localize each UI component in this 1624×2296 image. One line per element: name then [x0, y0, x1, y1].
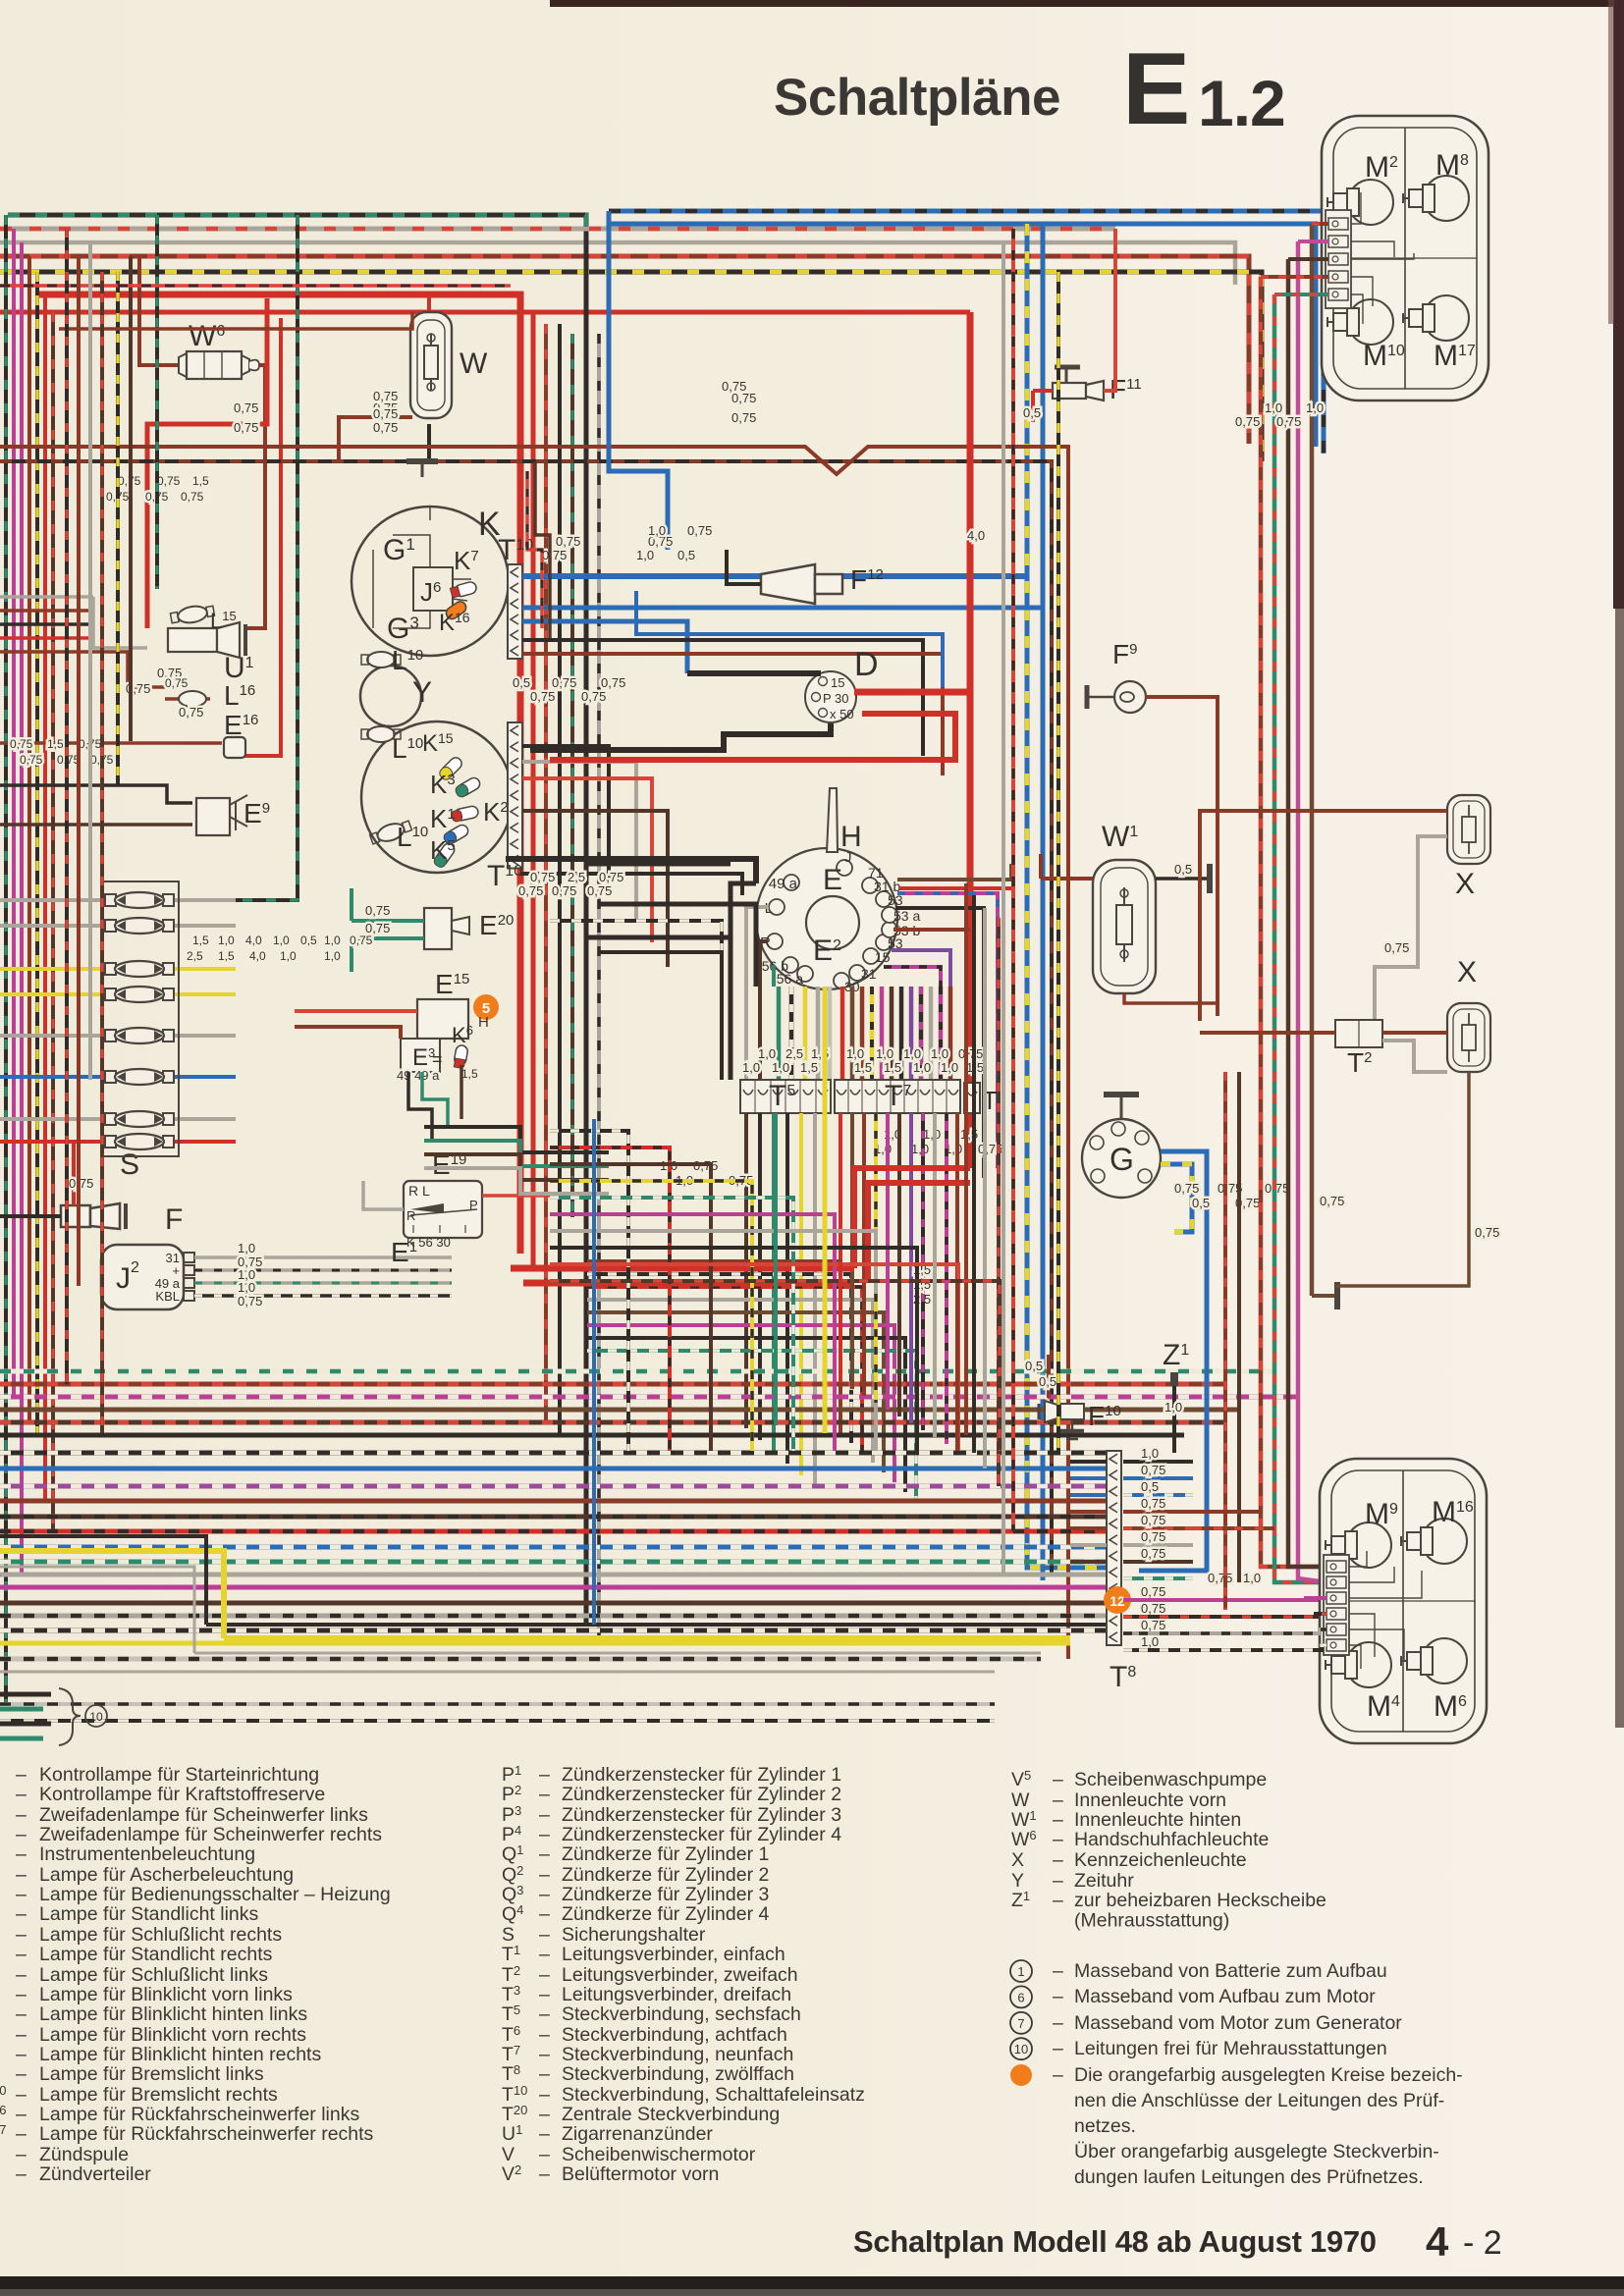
svg-text:–: –	[16, 2024, 27, 2046]
wire F10 up	[1025, 1355, 1056, 1398]
svg-text:Lampe für Blinklicht vorn rech: Lampe für Blinklicht vorn rechts	[39, 2024, 306, 2046]
connector T8	[1107, 1451, 1136, 1693]
svg-text:–: –	[539, 1843, 550, 1865]
svg-text:–: –	[539, 2084, 550, 2106]
svg-text:0,75: 0,75	[581, 689, 606, 704]
svg-text:Lampe für Ascherbeleuchtung: Lampe für Ascherbeleuchtung	[39, 1864, 294, 1886]
ground tail brown	[1312, 1282, 1337, 1309]
wires into taillamp	[1139, 1571, 1326, 1650]
wire tail bundle brown	[1310, 224, 1315, 1296]
svg-text:1,0: 1,0	[742, 1060, 760, 1075]
wire black nest E 5	[599, 952, 722, 1080]
legend circled ground straps	[1010, 1960, 1402, 2059]
wire red heater 2	[523, 1280, 854, 1287]
wire switch fan	[779, 987, 950, 1080]
svg-text:4,0: 4,0	[245, 934, 262, 947]
wire spine dark 1	[544, 324, 548, 1422]
svg-text:1,0: 1,0	[218, 934, 235, 947]
svg-text:31: 31	[861, 966, 877, 982]
svg-text:–: –	[539, 1764, 550, 1786]
svg-text:D: D	[854, 646, 879, 683]
connector taillamp pins	[1324, 1555, 1349, 1655]
svg-text:–: –	[16, 1784, 27, 1805]
svg-text:–: –	[539, 2163, 550, 2185]
turnsignal labels	[760, 849, 920, 994]
label E2	[813, 934, 841, 967]
wire top bus extra red	[0, 284, 511, 288]
svg-text:–: –	[1053, 1809, 1063, 1831]
switch F9	[1112, 639, 1146, 713]
turnsignal pins	[767, 860, 897, 988]
svg-text:–: –	[1053, 1769, 1063, 1790]
fuse box S outline	[102, 881, 179, 1156]
svg-text:1,0: 1,0	[1141, 1446, 1159, 1461]
switch E15	[417, 969, 469, 1039]
wire tail bundle red	[1288, 259, 1326, 1567]
labels below T7	[874, 1127, 1002, 1156]
svg-text:Zigarrenanzünder: Zigarrenanzünder	[562, 2123, 713, 2145]
wire horn	[727, 550, 761, 584]
wire T2 left	[1200, 1031, 1335, 1035]
wire top bus maroon-red	[0, 256, 1249, 444]
svg-text:0,5: 0,5	[1192, 1196, 1210, 1210]
wire T8 right pins	[1123, 1446, 1326, 1650]
svg-text:Innenleuchte vorn: Innenleuchte vorn	[1074, 1789, 1226, 1811]
lamp cluster top right box	[1322, 116, 1489, 400]
title E1.2	[1122, 32, 1285, 146]
svg-text:0,75: 0,75	[373, 389, 398, 403]
svg-text:Lampe für Bedienungsschalter –: Lampe für Bedienungsschalter – Heizung	[39, 1884, 391, 1905]
wire T8 left stubs	[1070, 1462, 1107, 1562]
svg-text:7: 7	[1017, 2016, 1024, 2031]
svg-text:–: –	[16, 2003, 27, 2025]
wire W top	[427, 294, 431, 312]
wire tail bundle magenta	[1298, 241, 1326, 1582]
wire low white blk	[0, 1702, 995, 1706]
svg-text:Kontrollampe für Kraftstoffres: Kontrollampe für Kraftstoffreserve	[39, 1784, 325, 1805]
svg-text:–: –	[16, 1944, 27, 1965]
svg-text:0,5: 0,5	[1039, 1374, 1056, 1389]
svg-text:0,75: 0,75	[687, 523, 712, 538]
svg-text:Zündkerzenstecker für Zylinder: Zündkerzenstecker für Zylinder 4	[562, 1824, 841, 1845]
fuse row y987	[0, 961, 236, 977]
svg-text:–: –	[16, 1984, 27, 2005]
svg-text:71: 71	[868, 865, 884, 881]
wire red drop 2	[226, 318, 281, 756]
label Y	[412, 676, 432, 709]
fuse row y1140	[0, 1111, 236, 1127]
lamp E16	[224, 710, 258, 758]
svg-text:0,75: 0,75	[179, 705, 203, 720]
svg-text:Leitungen frei für Mehrausstat: Leitungen frei für Mehrausstattungen	[1074, 2038, 1387, 2059]
svg-text:1,0: 1,0	[238, 1280, 255, 1295]
svg-text:–: –	[539, 2024, 550, 2046]
svg-text:Steckverbindung, neunfach: Steckverbindung, neunfach	[562, 2044, 793, 2065]
wire spine dark 2	[558, 324, 562, 1435]
svg-text:0,75: 0,75	[234, 420, 258, 435]
label E	[823, 864, 842, 896]
svg-text:0,5: 0,5	[300, 934, 317, 947]
connector headlamp pins	[1326, 210, 1351, 308]
label E1	[391, 1237, 417, 1267]
labels W wires	[373, 400, 398, 435]
svg-text:Instrumentenbeleuchtung: Instrumentenbeleuchtung	[39, 1843, 255, 1865]
svg-text:Zündkerze für Zylinder 2: Zündkerze für Zylinder 2	[562, 1864, 769, 1886]
svg-text:0,5: 0,5	[677, 548, 695, 562]
svg-text:Zentrale Steckverbindung: Zentrale Steckverbindung	[562, 2104, 780, 2125]
wire red heater 1	[511, 1265, 854, 1272]
wire top bus red thick	[36, 294, 520, 1254]
svg-text:15: 15	[875, 949, 891, 965]
svg-text:–: –	[539, 1964, 550, 1986]
footer page number	[1426, 2218, 1502, 2265]
wire W1 left	[1041, 854, 1093, 879]
svg-text:–: –	[16, 1964, 27, 1986]
wire left edge vertical	[12, 229, 16, 1397]
svg-text:- 2: - 2	[1463, 2224, 1502, 2262]
svg-text:6: 6	[1017, 1990, 1024, 2004]
svg-text:10: 10	[1014, 2042, 1028, 2056]
interior light W1	[1093, 821, 1156, 993]
wire black pair 2	[0, 461, 1052, 1575]
footer text	[853, 2224, 1377, 2259]
wire L16	[126, 681, 210, 707]
svg-text:10: 10	[89, 1710, 103, 1724]
svg-text:0,75: 0,75	[20, 753, 43, 767]
wire vert teal 160	[155, 215, 159, 589]
svg-text:0,5: 0,5	[1023, 405, 1041, 420]
wire F9 left bar	[1087, 685, 1114, 709]
lamp K3 green	[454, 775, 482, 798]
label K15	[422, 730, 454, 757]
legend orange note	[1010, 2064, 1463, 2188]
svg-text:1,5: 1,5	[854, 1060, 872, 1075]
svg-text:1,0: 1,0	[636, 548, 654, 562]
svg-text:netzes.: netzes.	[1074, 2115, 1136, 2137]
svg-text:–: –	[16, 1903, 27, 1925]
wire black nest E 2	[599, 904, 756, 987]
svg-text:Zündkerzenstecker für Zylinder: Zündkerzenstecker für Zylinder 1	[562, 1764, 841, 1786]
wire T10 red2	[522, 778, 652, 942]
connector T1	[964, 1083, 998, 1115]
wire black mid2	[520, 874, 742, 895]
wire low gray 1703	[0, 1671, 995, 1674]
svg-text:P 30: P 30	[823, 691, 849, 706]
svg-text:Zeituhr: Zeituhr	[1074, 1870, 1134, 1892]
svg-text:–: –	[16, 1864, 27, 1886]
svg-text:0,75: 0,75	[373, 420, 398, 435]
svg-text:0,75: 0,75	[1320, 1194, 1344, 1208]
svg-text:0,75: 0,75	[1141, 1496, 1165, 1511]
cluster internal wires	[373, 507, 471, 628]
connector T7	[835, 1080, 960, 1113]
label T10 lower	[487, 860, 522, 892]
row labels above E15	[187, 934, 373, 963]
svg-text:1,5: 1,5	[47, 737, 64, 751]
wire blue bus 1	[609, 211, 1324, 454]
svg-text:–: –	[539, 2063, 550, 2085]
svg-text:0,75: 0,75	[1141, 1601, 1165, 1616]
wire T5 tails	[746, 1113, 815, 1487]
wire left edge vertical	[43, 294, 47, 1501]
wire vert dk 984	[964, 883, 968, 1435]
svg-text:Lampe für Bremslicht rechts: Lampe für Bremslicht rechts	[39, 2084, 278, 2106]
svg-text:Handschuhfachleuchte: Handschuhfachleuchte	[1074, 1829, 1269, 1850]
svg-text:Zündkerzenstecker für Zylinder: Zündkerzenstecker für Zylinder 2	[562, 1784, 841, 1805]
svg-text:1,0: 1,0	[876, 1046, 893, 1061]
svg-text:0,75: 0,75	[518, 883, 543, 898]
svg-text:Kontrollampe für Starteinricht: Kontrollampe für Starteinrichtung	[39, 1764, 319, 1786]
wire vert blkyel 1078	[1056, 272, 1060, 1453]
wire vert dkred 1017	[997, 918, 1001, 1486]
wire blue bus 2	[609, 224, 1316, 447]
label K3	[430, 770, 456, 799]
fuse row y943	[0, 918, 236, 934]
wire switch left bundle	[731, 883, 774, 1080]
wire red into switch	[899, 886, 1011, 890]
svg-text:Lampe für Bremslicht links: Lampe für Bremslicht links	[39, 2063, 264, 2085]
svg-text:0,75: 0,75	[1141, 1546, 1165, 1561]
svg-text:0,75: 0,75	[731, 410, 756, 425]
svg-text:2,5: 2,5	[568, 870, 585, 884]
connector T2	[1335, 1020, 1382, 1078]
connector T10 lower	[508, 722, 522, 869]
wire T10 blue5	[636, 591, 943, 687]
wire vert red 1032	[1011, 229, 1015, 1531]
glovebox light W6	[179, 320, 259, 379]
svg-text:Sicherungshalter: Sicherungshalter	[562, 1924, 706, 1946]
svg-text:J: J	[844, 849, 852, 866]
wire vert dk 133	[129, 256, 133, 741]
fuse row y1055	[0, 1028, 236, 1043]
svg-text:1,0: 1,0	[1306, 400, 1324, 415]
wires E3 tails	[408, 1065, 461, 1139]
wire E15 in	[295, 1011, 417, 1039]
svg-text:Zündspule: Zündspule	[39, 2144, 129, 2165]
wire vert gray 1022	[1001, 242, 1005, 1575]
svg-text:–: –	[16, 1764, 27, 1786]
label L10 b	[392, 733, 423, 764]
svg-text:–: –	[16, 2104, 27, 2125]
svg-text:2,5: 2,5	[785, 1046, 803, 1061]
svg-text:0,75: 0,75	[1141, 1463, 1165, 1477]
lamp L10 b	[361, 726, 401, 742]
svg-text:zur beheizbaren Heckscheibe: zur beheizbaren Heckscheibe	[1074, 1890, 1326, 1911]
svg-text:Lampe für Rückfahrscheinwerfer: Lampe für Rückfahrscheinwerfer links	[39, 2104, 359, 2125]
wire X1 gray	[1375, 836, 1447, 1020]
wire maroon W6 right	[245, 365, 265, 628]
svg-text:Schaltpläne: Schaltpläne	[774, 69, 1060, 127]
wire G blue 2	[1161, 1164, 1192, 1232]
wire corner stub b	[1193, 1526, 1274, 1530]
fuse row y917	[0, 892, 236, 908]
lamp K5 green	[432, 841, 457, 869]
svg-text:1,0: 1,0	[324, 934, 341, 947]
label M10	[1363, 340, 1405, 372]
wire spine green	[570, 334, 574, 1217]
top page edge	[550, 0, 1624, 7]
svg-text:1,5: 1,5	[192, 474, 209, 488]
svg-text:​16: ​16	[0, 2103, 6, 2117]
wire blue vertical A	[1027, 224, 1115, 1568]
svg-text:–: –	[539, 1924, 550, 1946]
svg-text:H: H	[478, 1014, 489, 1031]
wire left edge vertical	[4, 215, 8, 1704]
svg-text:0,75: 0,75	[542, 548, 567, 562]
svg-text:1,0: 1,0	[772, 1060, 789, 1075]
switch E9	[196, 795, 270, 835]
label M6	[1434, 1690, 1467, 1723]
svg-text:–: –	[539, 1944, 550, 1965]
wire maroon drop W6	[139, 256, 180, 365]
svg-text:2,5: 2,5	[187, 949, 203, 963]
svg-text:–: –	[539, 2144, 550, 2165]
svg-text:W: W	[460, 347, 488, 380]
svg-text:Zündkerze für Zylinder 3: Zündkerze für Zylinder 3	[562, 1884, 769, 1905]
label E19	[432, 1149, 466, 1180]
wire blue weave	[592, 1119, 596, 1625]
label G1	[383, 534, 415, 566]
svg-text:Y: Y	[412, 676, 432, 709]
svg-text:Lampe für Rückfahrscheinwerfer: Lampe für Rückfahrscheinwerfer rechts	[39, 2123, 374, 2145]
lamp K16	[444, 599, 468, 620]
wire low last	[0, 1719, 995, 1723]
wire J2 pin wires	[194, 1241, 452, 1308]
svg-text:12: 12	[1110, 1593, 1125, 1609]
svg-text:1: 1	[1017, 1964, 1024, 1979]
svg-text:1,5: 1,5	[192, 934, 209, 947]
svg-text:0,75: 0,75	[165, 676, 189, 690]
wire T7 tails	[840, 1113, 957, 1369]
wire stairs red b	[535, 461, 550, 638]
label M16	[1432, 1496, 1474, 1528]
wire 4.0 label	[967, 528, 985, 543]
wire teal long	[774, 1113, 778, 1425]
heated window Z1	[1163, 1339, 1189, 1453]
wire black nest E 1	[586, 862, 731, 867]
wire left corner gray	[0, 1567, 194, 1653]
wire vert blkyel 120	[116, 272, 120, 785]
wire W bottom 2	[427, 424, 431, 461]
horn F12	[761, 564, 884, 604]
svg-text:Lampe für Schlußlicht links: Lampe für Schlußlicht links	[39, 1964, 268, 1986]
fuse row y1097	[0, 1069, 236, 1085]
turnsignal switch outline	[756, 788, 897, 989]
svg-text:4,0: 4,0	[249, 949, 266, 963]
svg-text:0,75: 0,75	[365, 903, 390, 918]
wire top bus gray-red	[0, 227, 1115, 232]
wire spine black long	[584, 236, 589, 1625]
wire weave corners	[550, 1131, 1000, 1451]
svg-text:0,75: 0,75	[552, 883, 576, 898]
svg-text:R L: R L	[408, 1183, 430, 1199]
svg-text:Steckverbindung, achtfach: Steckverbindung, achtfach	[562, 2024, 787, 2046]
svg-text:–: –	[1053, 1890, 1063, 1911]
svg-text:–: –	[539, 1884, 550, 1905]
svg-text:–: –	[16, 2084, 27, 2106]
svg-text:0,75: 0,75	[552, 675, 576, 690]
wire red drop 1	[147, 298, 267, 628]
wire G blue 1	[1139, 1151, 1207, 1571]
ground W	[406, 461, 438, 477]
wire left stub E16	[0, 741, 222, 745]
label H	[840, 821, 862, 853]
svg-text:–: –	[539, 1784, 550, 1805]
wire T10 blue2	[522, 606, 1043, 611]
wire E19 left	[363, 1181, 550, 1209]
wire top bus teal-black	[8, 215, 586, 236]
svg-text:​17: ​17	[0, 2122, 6, 2137]
svg-text:53 a: 53 a	[893, 908, 920, 924]
svg-text:1,0: 1,0	[931, 1046, 948, 1061]
wire red heater vert	[854, 1168, 970, 1283]
wire T2 right	[1382, 1033, 1447, 1072]
svg-text:–: –	[1053, 2064, 1063, 2086]
svg-text:x 50: x 50	[830, 707, 854, 721]
svg-text:Lampe für Standlicht links: Lampe für Standlicht links	[39, 1903, 259, 1925]
svg-text:G: G	[1110, 1142, 1134, 1177]
wire left corner yellow	[0, 1551, 224, 1638]
wire W bottom 1	[339, 417, 412, 461]
labels heater	[913, 1262, 931, 1307]
wire bottom fan	[0, 1371, 1296, 1659]
label K7	[454, 546, 479, 575]
spare wires 10	[0, 1688, 107, 1745]
svg-text:1,0: 1,0	[913, 1060, 931, 1075]
svg-text:0,75: 0,75	[1235, 414, 1260, 429]
svg-text:S: S	[120, 1148, 139, 1181]
svg-text:Lampe für Blinklicht vorn link: Lampe für Blinklicht vorn links	[39, 1984, 293, 2005]
svg-text:–: –	[539, 1984, 550, 2005]
left labels col	[10, 676, 189, 767]
label L10 a	[392, 645, 423, 675]
svg-text:Masseband vom Motor zum Genera: Masseband vom Motor zum Generator	[1074, 2012, 1402, 2034]
wire blue drop left	[607, 211, 612, 294]
svg-text:Lampe für Standlicht rechts: Lampe für Standlicht rechts	[39, 1944, 273, 1965]
switch F11	[1053, 367, 1142, 404]
ignition switch D	[805, 646, 879, 722]
svg-text:–: –	[539, 1804, 550, 1826]
svg-text:–: –	[16, 1804, 27, 1826]
svg-text:Zweifadenlampe für Scheinwerfe: Zweifadenlampe für Scheinwerfer links	[39, 1804, 368, 1826]
labels right of T10	[513, 534, 695, 704]
right page edge	[1608, 0, 1624, 1728]
wire top bus gray	[0, 242, 1235, 285]
svg-text:0,75: 0,75	[181, 490, 204, 504]
svg-text:–: –	[16, 1884, 27, 1905]
svg-text:1,0: 1,0	[648, 523, 666, 538]
svg-text:Masseband vom Aufbau zum Motor: Masseband vom Aufbau zum Motor	[1074, 1986, 1376, 2007]
wire T10 black1	[522, 640, 923, 756]
svg-text:Scheibenwischermotor: Scheibenwischermotor	[562, 2144, 756, 2165]
svg-text:–: –	[539, 1824, 550, 1845]
wire top bus extra brown	[59, 312, 412, 329]
svg-text:–: –	[16, 1824, 27, 1845]
svg-text:56 a: 56 a	[777, 971, 803, 987]
label K16	[439, 610, 470, 636]
svg-text:0,75: 0,75	[556, 534, 580, 549]
wire left stubs to U1	[0, 597, 165, 687]
wire W1 right ground	[1156, 862, 1210, 893]
svg-text:0,75: 0,75	[1141, 1513, 1165, 1527]
svg-text:–: –	[1053, 1870, 1063, 1892]
svg-text:nen die Anschlüsse der Leitung: nen die Anschlüsse der Leitungen des Prü…	[1074, 2090, 1444, 2111]
svg-text:Innenleuchte hinten: Innenleuchte hinten	[1074, 1809, 1241, 1831]
wire red vert 2	[967, 312, 974, 692]
svg-text:Steckverbindung, zwölffach: Steckverbindung, zwölffach	[562, 2063, 794, 2085]
wires taillamp internal	[1349, 1551, 1422, 1669]
label K2	[483, 797, 509, 827]
